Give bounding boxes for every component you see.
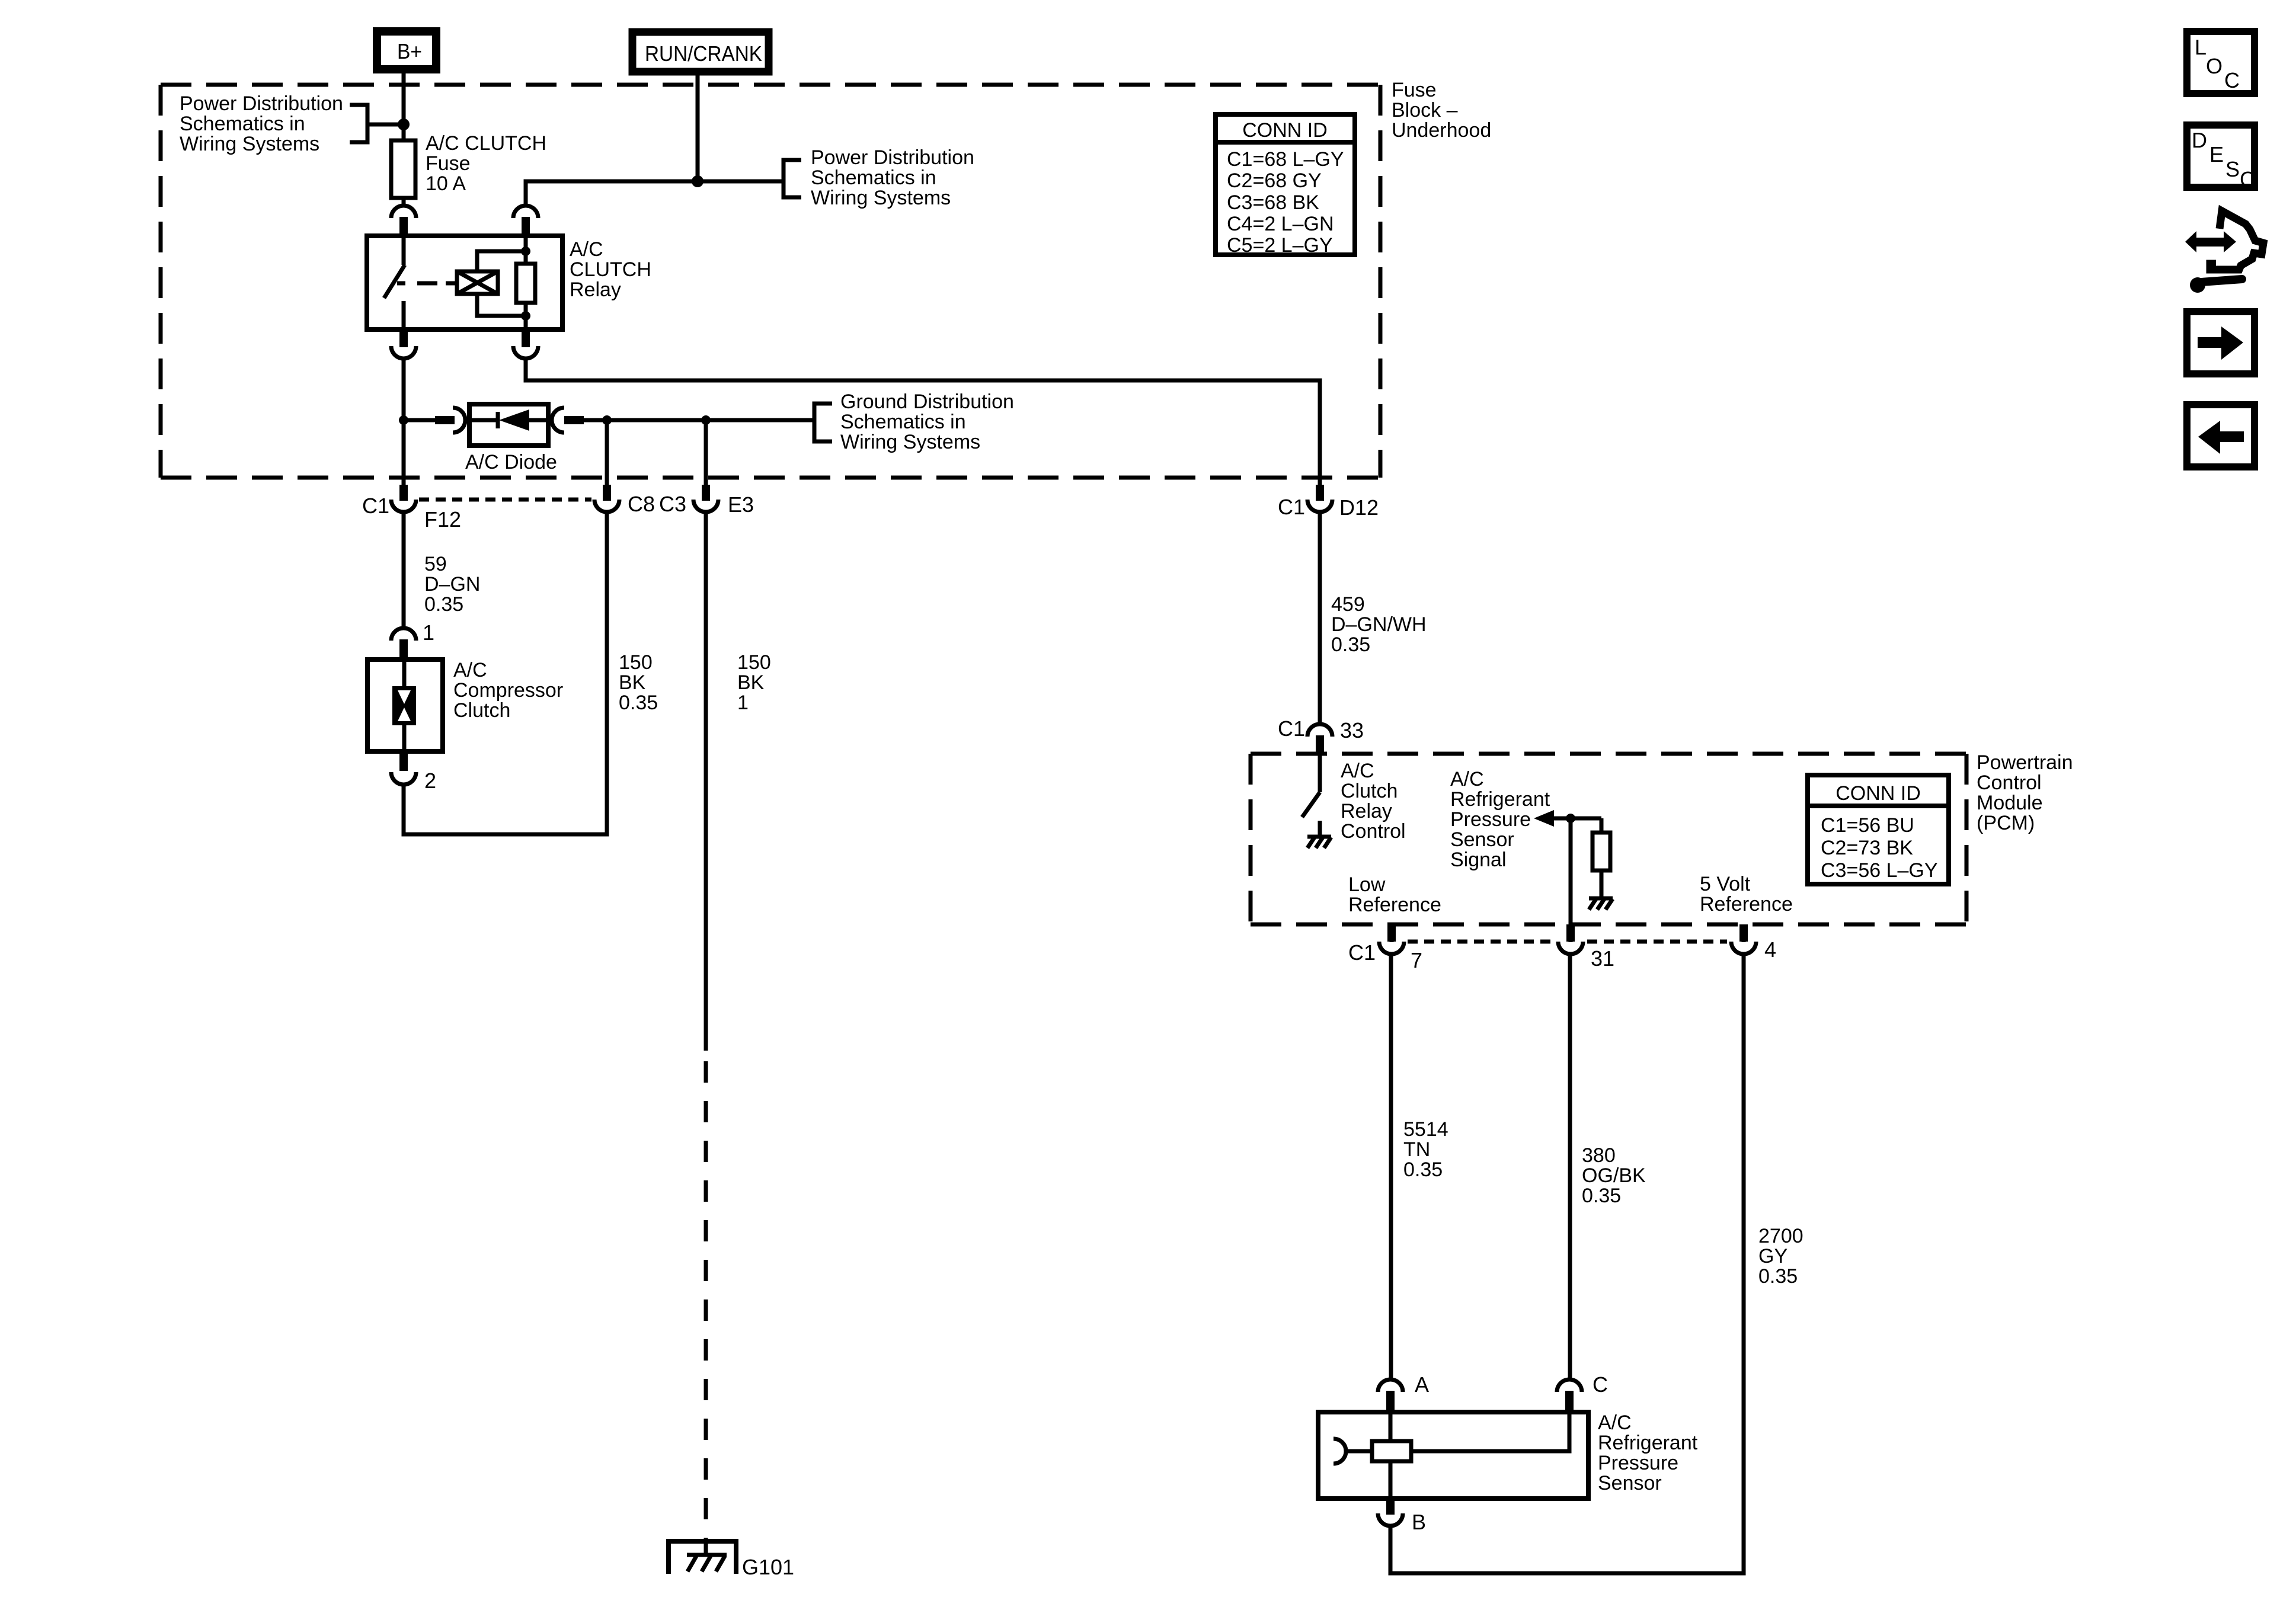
connector PCM pin 31	[1558, 924, 1583, 954]
PCM internal pull resistor	[1593, 818, 1610, 898]
svg-text:Wiring Systems: Wiring Systems	[840, 431, 980, 453]
svg-text:C: C	[2224, 68, 2240, 92]
wire B+ to fuse	[402, 73, 406, 140]
svg-text:C1: C1	[362, 494, 389, 518]
label C1 (pin 33)	[1278, 716, 1305, 741]
connector C8 (in-line)	[594, 485, 619, 512]
connector arc sensor pin B	[1378, 1499, 1403, 1526]
wire E3 to G101 (dashed)	[704, 513, 708, 1539]
svg-text:TN: TN	[1403, 1138, 1430, 1161]
svg-text:Relay: Relay	[570, 279, 621, 301]
svg-text:Fuse: Fuse	[426, 152, 471, 175]
svg-text:C1: C1	[1278, 495, 1305, 519]
pin label 4	[1764, 937, 1776, 962]
reference bracket Power Distribution (right)	[784, 160, 801, 197]
connector C1 F12 (in-line)	[391, 485, 416, 512]
pin label C3	[659, 492, 686, 516]
svg-text:5 Volt: 5 Volt	[1700, 873, 1751, 895]
RUN/CRANK power symbol box	[632, 32, 769, 72]
Powertrain Control Module dashed box	[1251, 754, 1966, 924]
svg-text:C: C	[2240, 167, 2255, 191]
svg-text:B: B	[1412, 1510, 1426, 1534]
pin label F12	[424, 507, 461, 532]
sensor pressure port symbol	[1334, 1439, 1372, 1464]
svg-text:150: 150	[619, 651, 653, 674]
pin label 7	[1411, 948, 1422, 972]
svg-text:C1: C1	[1278, 716, 1305, 741]
svg-text:D–GN: D–GN	[424, 573, 480, 596]
dashed connector row C1-C8	[419, 498, 591, 502]
svg-text:CONN ID: CONN ID	[1835, 782, 1921, 805]
svg-text:A/C: A/C	[1450, 768, 1484, 790]
svg-text:Pressure: Pressure	[1450, 808, 1531, 831]
svg-text:CONN ID: CONN ID	[1242, 119, 1328, 142]
ground symbol (PCM internal, relay control)	[1307, 837, 1331, 848]
svg-text:7: 7	[1411, 948, 1422, 972]
wire pin 7 to sensor pin A	[1389, 955, 1393, 1378]
svg-text:GY: GY	[1758, 1245, 1787, 1267]
svg-text:D: D	[2192, 128, 2207, 152]
svg-text:BK: BK	[737, 671, 765, 694]
svg-text:Relay: Relay	[1341, 800, 1392, 822]
svg-text:2: 2	[424, 769, 436, 793]
pin label 31	[1591, 946, 1614, 971]
icon DESC box	[2187, 125, 2255, 191]
relay switch contact	[384, 236, 405, 329]
label C1 (F12 row)	[362, 494, 389, 518]
label A/C CLUTCH Fuse 10 A	[426, 132, 546, 195]
pin label 1	[423, 620, 434, 645]
signal arrow into PCM	[1534, 810, 1601, 827]
wire relay coil to PCM (horizontal run)	[526, 360, 1320, 485]
clutch coil symbol	[392, 660, 416, 751]
CONN ID table (PCM)	[1808, 775, 1949, 884]
node coil top junction	[521, 247, 530, 256]
wire clutch pin 2 to C8	[404, 513, 607, 834]
wire label 380 OG/BK 0.35	[1582, 1144, 1646, 1207]
svg-text:Refrigerant: Refrigerant	[1598, 1432, 1698, 1454]
svg-text:Clutch: Clutch	[453, 699, 510, 722]
relay coil symbol	[457, 251, 526, 316]
A/C Refrigerant Pressure Sensor box	[1318, 1412, 1588, 1499]
svg-text:A/C: A/C	[1598, 1411, 1632, 1434]
pin label A	[1415, 1372, 1429, 1397]
svg-text:Sensor: Sensor	[1598, 1472, 1662, 1494]
svg-text:Powertrain: Powertrain	[1977, 751, 2073, 774]
connector E3 (in-line)	[693, 485, 718, 512]
svg-text:S: S	[2225, 157, 2240, 181]
label C1 (D12 row)	[1278, 495, 1305, 519]
wire 5V reference to pin 4	[1742, 924, 1746, 942]
svg-text:Schematics in: Schematics in	[811, 167, 936, 189]
svg-text:0.35: 0.35	[424, 593, 463, 616]
pin label E3	[728, 492, 754, 517]
node pull resistor junction	[1566, 814, 1575, 823]
wire E3 drop from diode row	[704, 420, 708, 486]
svg-text:C3: C3	[659, 492, 686, 516]
pin label C8	[628, 492, 655, 516]
connector arc relay pin (left bottom)	[391, 329, 416, 359]
svg-text:A/C: A/C	[453, 659, 487, 681]
label A/C CLUTCH Relay	[570, 238, 651, 301]
svg-text:150: 150	[737, 651, 771, 674]
reference bracket Power Distribution (left)	[350, 105, 404, 142]
svg-text:Underhood: Underhood	[1392, 119, 1491, 142]
relay actuator dashed link	[417, 281, 456, 286]
icon LOC box	[2187, 31, 2255, 94]
svg-text:C8: C8	[628, 492, 655, 516]
connector C1 D12 (in-line)	[1307, 485, 1332, 512]
CONN ID table (Fuse Block)	[1216, 114, 1355, 257]
wire F12 to A/C compressor clutch pin 1	[402, 513, 406, 627]
reference bracket Ground Distribution	[814, 404, 832, 441]
svg-text:C2=68 GY: C2=68 GY	[1227, 169, 1322, 192]
svg-text:1: 1	[423, 620, 434, 645]
wire label 459 D-GN/WH 0.35	[1331, 593, 1427, 656]
svg-text:C: C	[1593, 1372, 1608, 1397]
pin label B	[1412, 1510, 1426, 1534]
svg-text:Pressure: Pressure	[1598, 1452, 1678, 1474]
wire diode to E3 junction	[607, 418, 706, 422]
svg-text:G101: G101	[742, 1555, 794, 1579]
svg-text:A/C Diode: A/C Diode	[465, 451, 557, 473]
svg-text:Schematics in: Schematics in	[180, 113, 305, 135]
wire label 5514 TN 0.35	[1403, 1118, 1448, 1181]
svg-text:F12: F12	[424, 507, 461, 532]
wire RUN/CRANK down	[696, 72, 700, 181]
pin label 2	[424, 769, 436, 793]
svg-text:C1=56 BU: C1=56 BU	[1821, 814, 1914, 837]
svg-text:33: 33	[1340, 718, 1364, 742]
svg-text:10 A: 10 A	[426, 172, 466, 195]
wire pin 31 to sensor pin C	[1568, 955, 1572, 1378]
svg-text:Module: Module	[1977, 792, 2043, 814]
connector arc PCM pin 33	[1307, 724, 1332, 754]
svg-text:C4=2 L–GN: C4=2 L–GN	[1227, 213, 1334, 235]
wire C8 drop from diode row	[605, 420, 609, 486]
svg-text:1: 1	[737, 692, 749, 714]
pin label 33	[1340, 718, 1364, 742]
label Power Distribution Schematics in Wiring Systems (right)	[811, 146, 974, 209]
label A/C Refrigerant Pressure Sensor Signal	[1450, 768, 1550, 871]
svg-text:Refrigerant: Refrigerant	[1450, 788, 1550, 811]
svg-text:O: O	[2206, 54, 2223, 78]
icon forward arrow box	[2187, 312, 2255, 374]
wire label 150 BK 0.35	[619, 651, 658, 714]
pin label C	[1593, 1372, 1608, 1397]
node junction RUN/CRANK feed	[692, 175, 703, 187]
node diode row junction E3	[701, 415, 711, 425]
PCM connector dashed row	[1408, 940, 1727, 944]
label Powertrain Control Module (PCM)	[1977, 751, 2073, 834]
svg-text:RUN/CRANK: RUN/CRANK	[645, 41, 762, 66]
node coil bottom junction	[521, 311, 530, 321]
node diode row junction C8	[602, 415, 612, 425]
svg-text:0.35: 0.35	[1582, 1185, 1621, 1207]
svg-text:Ground Distribution: Ground Distribution	[840, 391, 1014, 413]
connector arc relay pin (right bottom)	[513, 329, 538, 359]
svg-text:0.35: 0.35	[1403, 1158, 1443, 1181]
svg-text:C5=2 L–GY: C5=2 L–GY	[1227, 234, 1333, 257]
label 5 Volt Reference	[1700, 873, 1793, 916]
wire diode row to ground bracket	[706, 418, 814, 422]
wire relay switch to diode row and F12	[402, 360, 406, 486]
svg-text:Control: Control	[1977, 772, 2042, 794]
wire low reference to pin 7	[1390, 924, 1394, 942]
wire ignition feed horizontal	[526, 181, 784, 204]
svg-text:380: 380	[1582, 1144, 1616, 1167]
label Low Reference	[1348, 873, 1441, 916]
svg-text:E: E	[2209, 142, 2224, 167]
svg-text:CLUTCH: CLUTCH	[570, 258, 651, 281]
svg-text:Reference: Reference	[1700, 893, 1793, 916]
svg-text:Schematics in: Schematics in	[840, 411, 966, 433]
svg-text:Clutch: Clutch	[1341, 780, 1398, 802]
svg-text:Wiring Systems: Wiring Systems	[180, 133, 319, 155]
label G101	[742, 1555, 794, 1579]
svg-text:5514: 5514	[1403, 1118, 1448, 1141]
svg-text:Fuse: Fuse	[1392, 79, 1437, 101]
connector arc relay pin (left top)	[391, 206, 416, 236]
svg-text:0.35: 0.35	[1758, 1265, 1798, 1288]
svg-text:(PCM): (PCM)	[1977, 812, 2035, 834]
svg-text:4: 4	[1764, 937, 1776, 962]
label A/C Compressor Clutch	[453, 659, 563, 722]
relay coil resistor	[516, 236, 535, 329]
svg-text:Compressor: Compressor	[453, 679, 563, 702]
svg-text:A/C: A/C	[1341, 760, 1374, 782]
svg-text:59: 59	[424, 553, 447, 575]
svg-text:BK: BK	[619, 671, 646, 694]
connector arc relay pin (right top)	[513, 206, 538, 236]
wire signal junction to pin 31	[1569, 818, 1573, 942]
svg-text:Sensor: Sensor	[1450, 828, 1514, 851]
svg-text:OG/BK: OG/BK	[1582, 1164, 1646, 1187]
node diode row junction left	[399, 415, 408, 425]
svg-text:L: L	[2195, 35, 2207, 59]
svg-text:31: 31	[1591, 946, 1614, 971]
A/C Compressor Clutch box	[367, 660, 443, 751]
label Power Distribution Schematics in Wiring Systems (left)	[180, 92, 343, 155]
svg-text:Low: Low	[1348, 873, 1386, 896]
svg-text:Signal: Signal	[1450, 849, 1507, 871]
ground symbol (PCM internal, resistor)	[1589, 898, 1613, 910]
Fuse Block - Underhood dashed box	[161, 85, 1380, 478]
svg-text:C3=68 BK: C3=68 BK	[1227, 191, 1319, 214]
svg-text:E3: E3	[728, 492, 754, 517]
icon vehicle repair (car with arrows and wrench)	[2185, 211, 2263, 293]
A/C Diode assembly	[404, 404, 607, 446]
svg-text:D12: D12	[1339, 495, 1379, 520]
svg-text:A/C: A/C	[570, 238, 603, 261]
svg-text:Block –: Block –	[1392, 99, 1458, 121]
svg-text:2700: 2700	[1758, 1225, 1803, 1247]
sensor transducer element	[1372, 1412, 1569, 1499]
svg-text:B+: B+	[397, 39, 422, 63]
svg-text:0.35: 0.35	[619, 692, 658, 714]
wire label 59 D-GN 0.35	[424, 553, 480, 616]
svg-text:C3=56 L–GY: C3=56 L–GY	[1821, 859, 1938, 882]
svg-text:Reference: Reference	[1348, 894, 1441, 916]
svg-text:Control: Control	[1341, 820, 1406, 843]
connector PCM pin 7	[1379, 924, 1404, 954]
svg-text:Power Distribution: Power Distribution	[811, 146, 974, 169]
label A/C Refrigerant Pressure Sensor	[1598, 1411, 1698, 1494]
connector arc sensor pin C	[1557, 1379, 1582, 1412]
svg-text:0.35: 0.35	[1331, 633, 1370, 656]
PCM driver switch A/C Clutch Relay Control	[1302, 754, 1320, 837]
svg-text:A: A	[1415, 1372, 1429, 1397]
pin label D12	[1339, 495, 1379, 520]
label A/C Clutch Relay Control	[1341, 760, 1406, 843]
node junction on B+ wire	[398, 119, 410, 130]
wire D12 to PCM C1-33	[1318, 513, 1322, 723]
connector arc clutch pin 2	[391, 751, 416, 785]
wire pin 4 to sensor pin B (5V loop)	[1390, 955, 1744, 1573]
label Ground Distribution Schematics in Wiring Systems	[840, 391, 1014, 453]
fuse F? A/C CLUTCH Fuse 10A symbol	[391, 140, 415, 198]
Fuse Block - Underhood label	[1392, 79, 1491, 142]
svg-text:459: 459	[1331, 593, 1365, 616]
wire label 150 BK 1	[737, 651, 771, 714]
label A/C Diode	[465, 451, 557, 473]
svg-text:C2=73 BK: C2=73 BK	[1821, 837, 1913, 859]
B+ power symbol box	[377, 31, 436, 69]
wire label 2700 GY 0.35	[1758, 1225, 1803, 1288]
svg-text:C1=68 L–GY: C1=68 L–GY	[1227, 148, 1344, 171]
svg-text:A/C CLUTCH: A/C CLUTCH	[426, 132, 546, 155]
connector arc clutch pin 1	[391, 628, 416, 660]
connector arc sensor pin A	[1378, 1379, 1403, 1412]
relay K? A/C CLUTCH Relay box	[367, 236, 562, 329]
ground G101 symbol	[669, 1541, 736, 1574]
svg-text:C1: C1	[1348, 940, 1376, 965]
wire fuse to relay pin connector	[402, 198, 406, 205]
label C1 (pin 7)	[1348, 940, 1376, 965]
icon back arrow box	[2187, 405, 2255, 467]
connector PCM pin 4	[1731, 924, 1756, 954]
svg-text:D–GN/WH: D–GN/WH	[1331, 613, 1427, 636]
svg-text:Wiring Systems: Wiring Systems	[811, 187, 951, 209]
svg-text:Power Distribution: Power Distribution	[180, 92, 343, 115]
